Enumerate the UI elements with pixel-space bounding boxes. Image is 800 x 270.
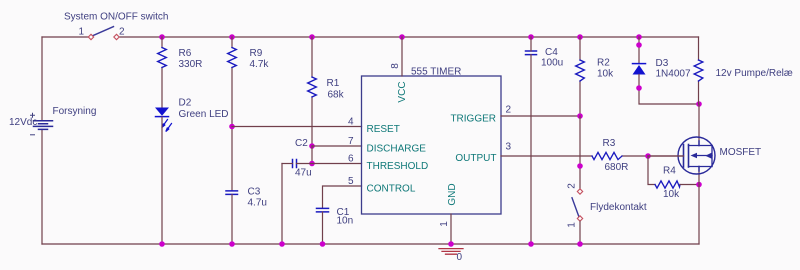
svg-text:100u: 100u: [541, 58, 563, 69]
wire drain lead: [698, 104, 700, 146]
junction on GND rail at C2: [279, 241, 285, 247]
svg-text:Forsyning: Forsyning: [53, 106, 97, 117]
svg-text:MOSFET: MOSFET: [720, 147, 762, 158]
svg-text:4.7u: 4.7u: [248, 198, 267, 209]
wire THRESHOLD net to pin 6: [297, 163, 362, 165]
wire D3 cathode lead: [638, 37, 640, 64]
resistor R4 10k: [655, 166, 680, 201]
wire gate node down to R4: [648, 156, 655, 185]
wire trigger node down to float switch: [579, 116, 581, 189]
svg-text:R3: R3: [603, 138, 616, 149]
svg-text:Green LED: Green LED: [179, 109, 229, 120]
junction at D3 cathode: [636, 42, 642, 48]
resistor R2 10k: [576, 58, 614, 82]
svg-text:12Vdc: 12Vdc: [9, 117, 37, 128]
svg-text:3: 3: [506, 142, 512, 153]
svg-text:7: 7: [348, 136, 354, 147]
junction on GND rail at C4: [528, 241, 534, 247]
junction at source / R4: [696, 182, 702, 188]
svg-text:680R: 680R: [605, 162, 629, 173]
svg-text:VCC: VCC: [397, 81, 408, 102]
svg-text:OUTPUT: OUTPUT: [455, 153, 496, 164]
svg-text:DISCHARGE: DISCHARGE: [367, 144, 427, 155]
junction at drain node: [696, 101, 702, 107]
wire C1 to GND rail: [322, 212, 324, 244]
resistor R9 4.7k: [228, 48, 270, 71]
resistor load 12v Pumpe/Relae: [694, 60, 703, 81]
junction on GND rail at C1: [320, 241, 326, 247]
svg-text:555 TIMER: 555 TIMER: [411, 67, 461, 78]
wire left supply column: [41, 37, 43, 244]
wire D3 anode to drain node: [639, 75, 699, 105]
capacitor C1 10n: [317, 207, 354, 227]
wire C4 top lead: [530, 37, 532, 51]
junction on VCC rail at D3: [636, 34, 642, 40]
wire C4 to GND rail: [530, 55, 532, 244]
svg-text:10k: 10k: [663, 189, 680, 200]
svg-text:TRIGGER: TRIGGER: [450, 114, 496, 125]
svg-text:2: 2: [119, 27, 125, 38]
svg-text:C2: C2: [295, 138, 308, 149]
svg-text:1: 1: [79, 27, 85, 38]
wire R9 leads: [231, 37, 233, 191]
wire pin 8 VCC: [401, 37, 403, 76]
wire gate lead into circle: [648, 155, 684, 157]
svg-text:1N4007: 1N4007: [656, 69, 691, 80]
wire R3 leads and gate: [622, 155, 684, 157]
wire OUTPUT net pin 3 to R3: [501, 155, 592, 157]
svg-text:RESET: RESET: [367, 124, 400, 135]
junction on GND rail at pin 1: [448, 241, 454, 247]
svg-text:D3: D3: [656, 58, 669, 69]
svg-text:330R: 330R: [179, 59, 203, 70]
svg-text:THRESHOLD: THRESHOLD: [367, 161, 429, 172]
svg-text:8: 8: [390, 63, 401, 69]
svg-text:4: 4: [348, 117, 354, 128]
ground symbol 0: [439, 249, 463, 255]
wire RESET net to pin 4: [232, 126, 362, 128]
svg-text:C3: C3: [248, 187, 261, 198]
junction on VCC rail at R1: [309, 34, 315, 40]
wire C3 to GND rail: [231, 195, 233, 245]
wire SW2 to GND rail: [579, 221, 581, 244]
wire R6 leads: [161, 37, 163, 108]
wire TRIGGER net pin 2 to R2: [501, 115, 580, 117]
wire C2 left lead: [282, 163, 293, 165]
svg-text:R9: R9: [250, 48, 263, 59]
wire R1 leads: [311, 37, 313, 146]
junction on VCC rail at pin 8: [399, 34, 405, 40]
op-amp U1 555 TIMER box: [362, 76, 502, 214]
svg-text:4.7k: 4.7k: [250, 59, 270, 70]
svg-text:6: 6: [348, 154, 354, 165]
junction on GND rail at C3: [229, 241, 235, 247]
svg-text:C4: C4: [545, 47, 558, 58]
wire R4 to source: [680, 184, 699, 186]
junction on GND rail at SW2: [577, 241, 583, 247]
resistor R1 68k: [308, 77, 345, 101]
svg-text:2: 2: [506, 105, 512, 116]
battery B1 12Vdc Forsyning: [31, 113, 53, 135]
svg-text:R6: R6: [179, 48, 192, 59]
svg-text:System ON/OFF switch: System ON/OFF switch: [64, 12, 168, 23]
wire CONTROL net to pin 5: [323, 186, 362, 208]
svg-text:R2: R2: [597, 58, 610, 69]
junction TRIGGER node at R2: [577, 113, 583, 119]
svg-text:R1: R1: [327, 78, 340, 89]
switch SW2 Flydekontakt: [572, 189, 583, 221]
svg-text:5: 5: [348, 176, 354, 187]
svg-text:10k: 10k: [597, 69, 614, 80]
wire pump load leads: [698, 37, 700, 104]
junction DISCHARGE node at R1: [309, 143, 315, 149]
capacitor C3 4.7u: [226, 187, 267, 209]
svg-text:GND: GND: [447, 183, 458, 205]
svg-text:2: 2: [567, 183, 578, 189]
wire GND bottom rail: [42, 243, 699, 245]
junction on VCC rail at R9: [229, 34, 235, 40]
junction on VCC rail at R6: [159, 34, 165, 40]
svg-text:Flydekontakt: Flydekontakt: [590, 202, 647, 213]
transistor Q1 MOSFET: [678, 137, 715, 174]
capacitor C4 100u: [526, 47, 564, 69]
wire D2 cathode to GND rail: [161, 117, 163, 244]
wire pin 1 to GND rail: [450, 214, 452, 244]
junction on VCC rail at C4: [528, 34, 534, 40]
svg-text:68k: 68k: [328, 90, 345, 101]
svg-text:47u: 47u: [295, 168, 312, 179]
junction at D3 anode: [636, 85, 642, 91]
wire R2 leads: [579, 37, 581, 116]
svg-text:10n: 10n: [337, 216, 354, 227]
wire C2 to GND rail: [281, 164, 283, 245]
junction THRESHOLD node at R1/C2: [309, 161, 315, 167]
svg-text:R4: R4: [663, 166, 676, 177]
LED D2 Green: [155, 108, 172, 132]
wire source lead: [698, 167, 700, 245]
svg-text:1: 1: [567, 222, 578, 228]
wire DISCHARGE net to pin 7: [312, 145, 362, 147]
junction RESET node at R9/C3: [229, 124, 235, 130]
svg-text:CONTROL: CONTROL: [367, 184, 416, 195]
resistor R3 680R: [592, 138, 628, 173]
switch SW1 System ON/OFF: [88, 27, 119, 40]
junction on trigger wire: [577, 163, 583, 169]
svg-text:12v Pumpe/Relæ: 12v Pumpe/Relæ: [716, 68, 793, 79]
svg-text:1: 1: [439, 221, 450, 227]
capacitor C2 47u: [293, 138, 312, 179]
junction on GND rail at D2: [159, 241, 165, 247]
svg-text:0: 0: [457, 252, 463, 263]
svg-text:D2: D2: [179, 98, 192, 109]
diode D3 1N4007: [633, 58, 691, 80]
junction on VCC rail at R2: [577, 34, 583, 40]
junction gate node R3/R4: [645, 153, 651, 159]
resistor R6 330R: [158, 48, 203, 71]
wire VCC top rail: [42, 36, 699, 38]
wire R1 bottom to THRESHOLD node: [311, 146, 313, 164]
